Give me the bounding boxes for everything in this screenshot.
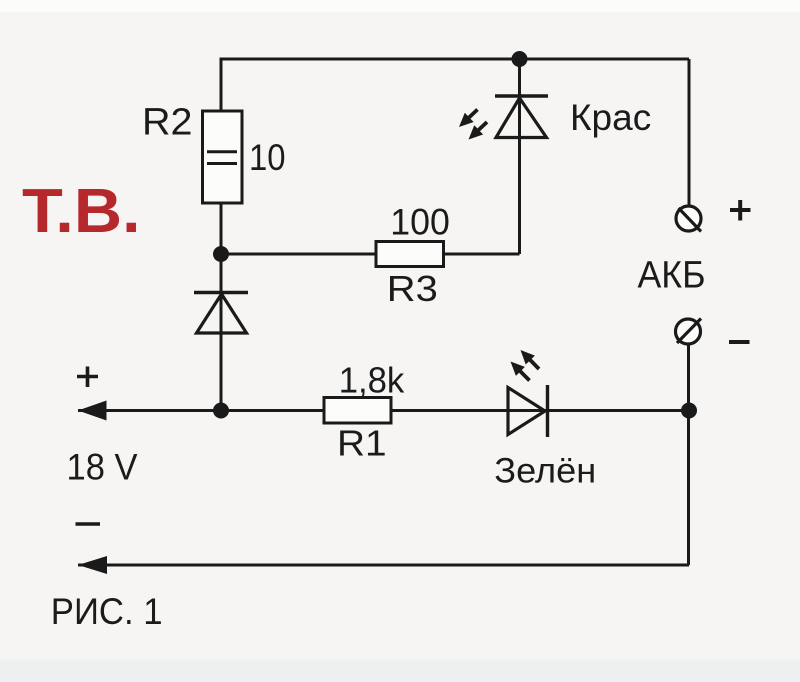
svg-text:Зелён: Зелён: [494, 451, 596, 490]
svg-text:1,8k: 1,8k: [339, 360, 406, 401]
svg-text:Т.В.: Т.В.: [22, 177, 141, 246]
svg-text:РИС. 1: РИС. 1: [51, 591, 163, 632]
svg-text:10: 10: [249, 137, 286, 178]
svg-text:100: 100: [390, 202, 450, 243]
svg-text:R3: R3: [387, 268, 438, 309]
svg-text:18 V: 18 V: [67, 447, 138, 488]
svg-text:R1: R1: [337, 423, 387, 464]
svg-text:R2: R2: [142, 102, 193, 144]
svg-text:Крас: Крас: [570, 97, 651, 138]
svg-text:АКБ: АКБ: [638, 254, 706, 296]
